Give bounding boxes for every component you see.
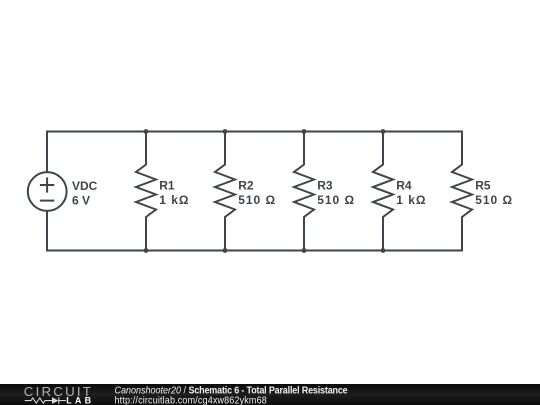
junction top R4 <box>381 129 386 134</box>
footer bar <box>0 384 540 405</box>
junction bottom R3 <box>302 248 307 253</box>
junction top R1 <box>144 129 149 134</box>
voltage source V1 VDC 6V <box>28 132 67 251</box>
svg-text:6 V: 6 V <box>72 194 90 208</box>
svg-text:R2: R2 <box>238 179 254 193</box>
svg-text:R5: R5 <box>475 179 491 193</box>
resistor R1 <box>136 132 156 251</box>
junction bottom R4 <box>381 248 386 253</box>
resistor R3 <box>294 132 314 251</box>
svg-text:510 Ω: 510 Ω <box>238 193 276 207</box>
resistor R2 <box>215 132 235 251</box>
svg-text:510 Ω: 510 Ω <box>317 193 355 207</box>
svg-text:R4: R4 <box>396 179 412 193</box>
svg-text:R1: R1 <box>159 179 175 193</box>
svg-text:LAB: LAB <box>66 395 94 405</box>
CircuitLab logo schematic line (resistor + diode) <box>25 397 66 404</box>
svg-text:510 Ω: 510 Ω <box>475 193 513 207</box>
wire bottom rail <box>47 250 462 252</box>
junction bottom R1 <box>144 248 149 253</box>
svg-text:1 kΩ: 1 kΩ <box>159 193 189 207</box>
footer title line <box>115 385 349 405</box>
CircuitLab logo diode <box>52 397 59 404</box>
resistor R4 <box>373 132 393 251</box>
resistor R5 <box>452 132 472 251</box>
wire top rail <box>47 131 462 133</box>
svg-text:VDC: VDC <box>72 179 98 193</box>
svg-text:R3: R3 <box>317 179 333 193</box>
junction top R2 <box>223 129 228 134</box>
junction bottom R2 <box>223 248 228 253</box>
junction top R3 <box>302 129 307 134</box>
svg-text:1 kΩ: 1 kΩ <box>396 193 426 207</box>
svg-text:http://circuitlab.com/cg4xw862: http://circuitlab.com/cg4xw862ykm68 <box>115 395 267 405</box>
